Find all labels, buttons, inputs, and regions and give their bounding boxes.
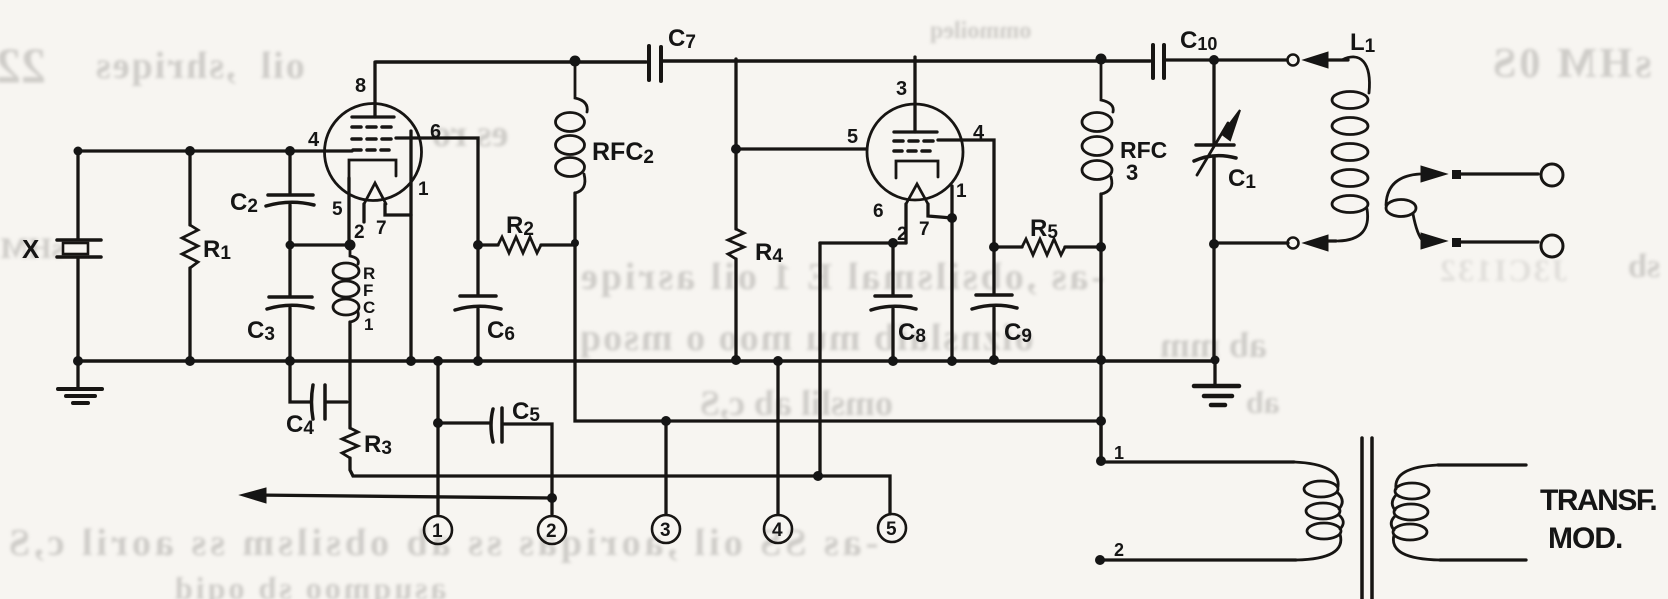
svg-text:R4: R4 — [755, 239, 783, 267]
svg-text:7: 7 — [919, 219, 930, 240]
svg-text:R2: R2 — [506, 212, 534, 240]
svg-text:5: 5 — [847, 126, 858, 148]
svg-text:RFC2: RFC2 — [592, 138, 654, 168]
svg-text:C3: C3 — [247, 317, 275, 345]
svg-text:MOD.: MOD. — [1548, 522, 1622, 555]
svg-text:2: 2 — [1114, 540, 1124, 560]
svg-text:C1: C1 — [1228, 165, 1256, 193]
svg-text:7: 7 — [376, 218, 387, 239]
svg-text:4: 4 — [308, 129, 320, 151]
svg-text:C8: C8 — [898, 319, 926, 347]
svg-text:4: 4 — [772, 520, 783, 541]
svg-text:C5: C5 — [512, 398, 540, 426]
svg-text:3: 3 — [660, 520, 671, 541]
svg-text:C6: C6 — [487, 317, 515, 345]
svg-text:R1: R1 — [203, 236, 231, 264]
svg-text:C9: C9 — [1004, 319, 1032, 347]
svg-text:TRANSF.: TRANSF. — [1540, 484, 1656, 517]
svg-text:2: 2 — [354, 222, 365, 243]
svg-text:5: 5 — [332, 199, 343, 220]
svg-text:2: 2 — [546, 521, 557, 542]
svg-text:5: 5 — [886, 519, 897, 540]
svg-text:6: 6 — [430, 121, 441, 143]
svg-text:C2: C2 — [230, 189, 258, 217]
svg-text:3: 3 — [1126, 160, 1138, 185]
svg-text:2: 2 — [897, 224, 908, 245]
svg-text:1: 1 — [418, 179, 429, 200]
svg-text:L1: L1 — [1350, 29, 1376, 57]
svg-text:3: 3 — [896, 78, 907, 100]
svg-text:C4: C4 — [286, 411, 314, 439]
svg-text:R5: R5 — [1030, 215, 1058, 243]
svg-text:1: 1 — [432, 521, 443, 542]
svg-text:1: 1 — [1114, 443, 1124, 463]
svg-text:C10: C10 — [1180, 27, 1217, 54]
svg-text:1: 1 — [364, 315, 373, 334]
svg-text:C7: C7 — [668, 25, 696, 53]
svg-text:6: 6 — [873, 201, 884, 222]
svg-text:8: 8 — [355, 75, 366, 97]
svg-text:X: X — [22, 234, 40, 264]
svg-text:R3: R3 — [364, 431, 392, 459]
svg-text:1: 1 — [956, 181, 967, 202]
svg-text:4: 4 — [973, 122, 985, 144]
